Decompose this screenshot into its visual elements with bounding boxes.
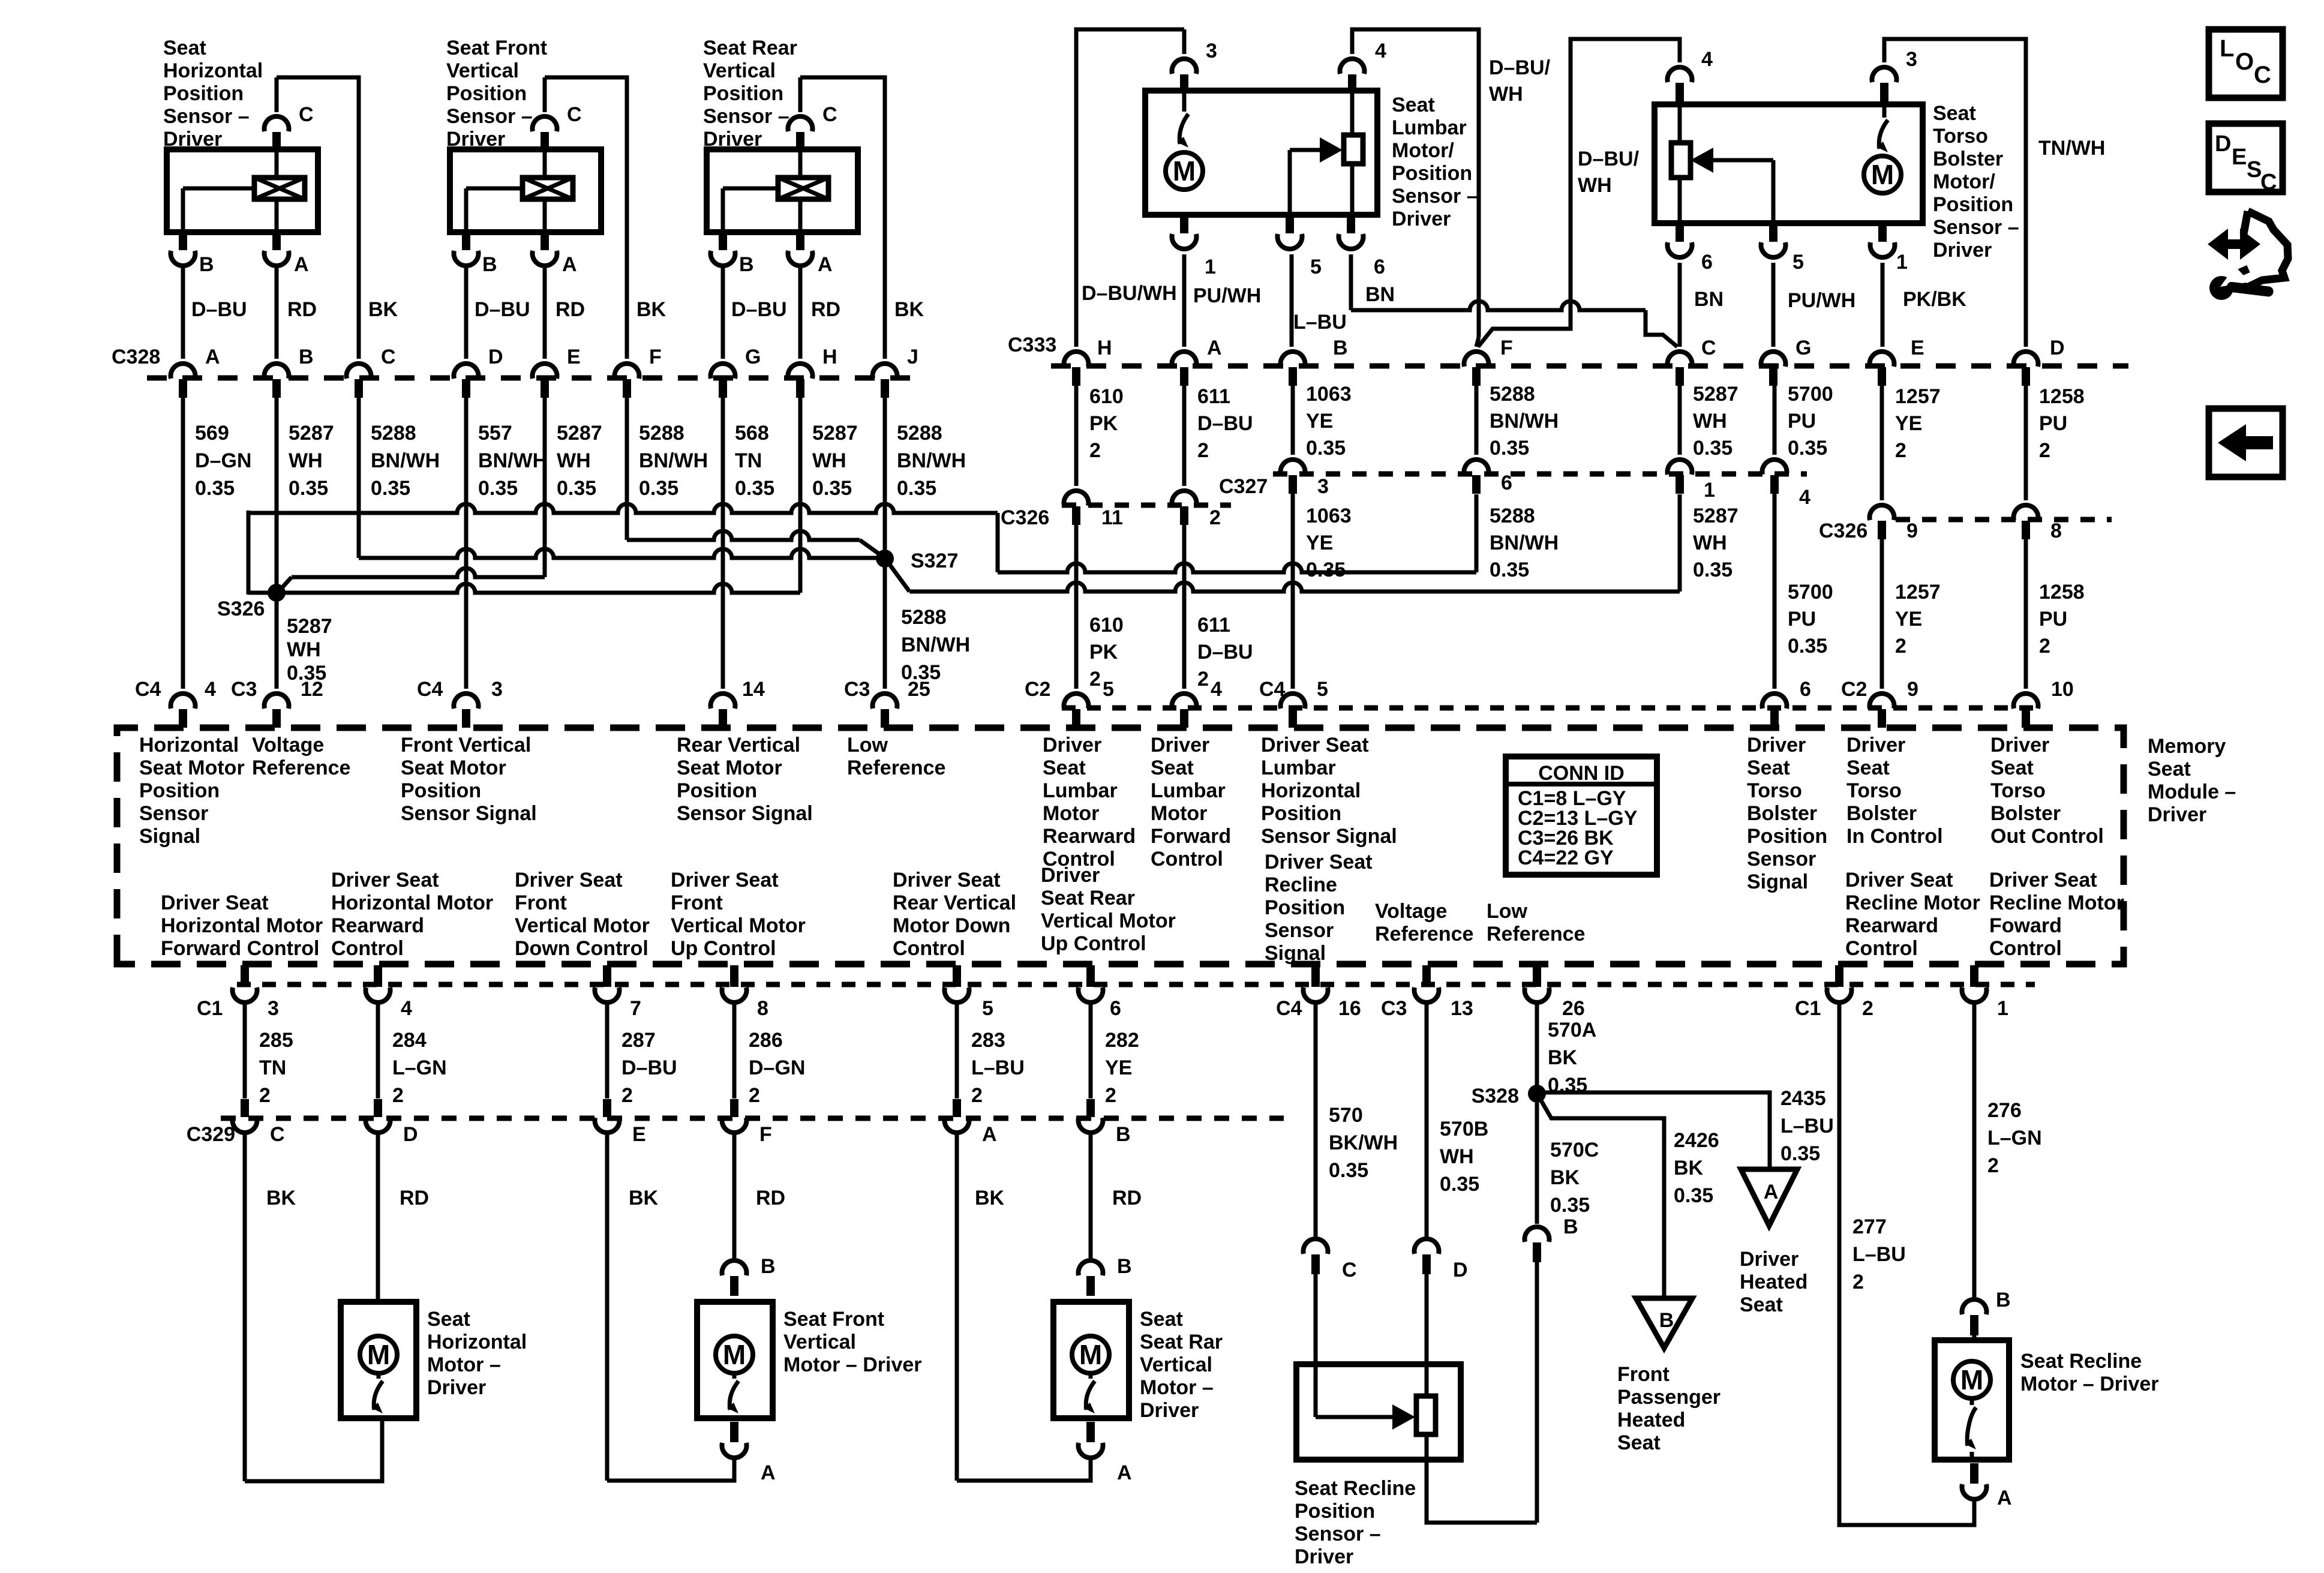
lumbar pin 4 loop wire D-BU/WH to C333-F xyxy=(1352,29,1479,337)
svg-text:Driver Seat: Driver Seat xyxy=(331,869,439,891)
wire column D 557 to module C4-3 xyxy=(464,397,469,689)
icon DESC box xyxy=(2209,124,2283,192)
svg-text:5700: 5700 xyxy=(1788,581,1833,604)
svg-text:285: 285 xyxy=(259,1029,293,1052)
svg-text:YE: YE xyxy=(1105,1056,1132,1079)
svg-text:Passenger: Passenger xyxy=(1617,1386,1721,1409)
svg-text:Seat: Seat xyxy=(1740,1293,1783,1316)
svg-text:RD: RD xyxy=(756,1187,785,1209)
svg-text:L–BU: L–BU xyxy=(1852,1243,1906,1266)
module bottom connector pin 5 xyxy=(953,965,961,987)
svg-text:Driver Seat: Driver Seat xyxy=(515,869,623,891)
svg-text:16: 16 xyxy=(1338,997,1361,1020)
svg-text:WH: WH xyxy=(1578,174,1612,197)
svg-text:1: 1 xyxy=(1896,251,1908,274)
svg-text:D: D xyxy=(1453,1259,1468,1281)
svg-text:C: C xyxy=(299,103,314,126)
junction S326 xyxy=(268,584,286,602)
svg-text:RD: RD xyxy=(1112,1187,1142,1209)
torso pin 1 wire PK/BK to C333-E xyxy=(1881,263,1885,347)
svg-text:WH: WH xyxy=(1693,532,1727,554)
svg-text:Torso: Torso xyxy=(1747,779,1802,802)
connector C333 pin F xyxy=(1464,352,1489,367)
connector C327 pin 4 xyxy=(1762,460,1787,475)
connector C326 pin 9 xyxy=(1870,505,1894,520)
svg-text:WH: WH xyxy=(1489,83,1523,106)
sensor 3 pin C connector xyxy=(788,116,813,131)
svg-text:Seat: Seat xyxy=(163,37,206,59)
wire 5700 PU from C327-4 to module pin 6 xyxy=(1773,494,1777,689)
svg-text:L: L xyxy=(2220,35,2234,62)
svg-text:Seat: Seat xyxy=(1933,102,1976,125)
svg-text:5288: 5288 xyxy=(639,422,684,445)
svg-text:1063: 1063 xyxy=(1306,383,1352,406)
svg-text:Reference: Reference xyxy=(1375,923,1473,945)
svg-text:BK: BK xyxy=(629,1187,659,1209)
svg-text:Position: Position xyxy=(1295,1500,1375,1523)
connector C326 pin 11 xyxy=(1064,491,1089,506)
svg-text:1: 1 xyxy=(1997,997,2008,1020)
svg-text:Motor: Motor xyxy=(1151,802,1207,825)
connector C327 pin 6 xyxy=(1464,460,1489,475)
svg-text:Sensor –: Sensor – xyxy=(1392,185,1478,208)
svg-text:YE: YE xyxy=(1306,410,1333,433)
position sensor 1 box xyxy=(167,149,318,232)
svg-text:5288: 5288 xyxy=(1490,383,1535,406)
torso pin 1 connector xyxy=(1878,223,1887,242)
svg-text:A: A xyxy=(818,253,833,276)
svg-text:Seat: Seat xyxy=(1043,757,1086,779)
svg-text:C333: C333 xyxy=(1008,334,1056,356)
svg-text:Sensor Signal: Sensor Signal xyxy=(1261,825,1397,848)
lumbar motor M xyxy=(1166,152,1203,190)
connector C326 pin 8 xyxy=(2014,505,2038,520)
svg-text:Reference: Reference xyxy=(252,757,350,779)
seat torso bolster motor/position sensor box xyxy=(1655,104,1923,223)
svg-text:0.35: 0.35 xyxy=(1693,437,1733,460)
svg-text:BK: BK xyxy=(894,298,924,321)
svg-text:6: 6 xyxy=(1800,678,1811,701)
module bottom connector pin 1 xyxy=(1970,965,1978,987)
sensor 1 pin C connector xyxy=(265,116,289,131)
svg-text:570: 570 xyxy=(1329,1104,1363,1127)
svg-text:Rear Vertical: Rear Vertical xyxy=(893,891,1016,914)
svg-text:Driver Seat: Driver Seat xyxy=(161,891,269,914)
svg-text:E: E xyxy=(2232,145,2247,170)
svg-text:4: 4 xyxy=(1211,678,1222,701)
sensor 1 pin C loop wire to C328 xyxy=(275,77,279,112)
svg-text:Lumbar: Lumbar xyxy=(1261,757,1336,779)
svg-text:O: O xyxy=(2235,49,2254,75)
svg-text:C3: C3 xyxy=(844,678,870,701)
svg-text:BK: BK xyxy=(1674,1157,1704,1179)
svg-text:C4: C4 xyxy=(1259,678,1286,701)
svg-text:2: 2 xyxy=(1895,439,1906,462)
svg-text:9: 9 xyxy=(1906,520,1918,542)
svg-text:Lumbar: Lumbar xyxy=(1392,116,1467,139)
module top connector dotted row xyxy=(1062,706,2035,711)
svg-text:A: A xyxy=(1207,337,1222,359)
svg-text:Motor/: Motor/ xyxy=(1392,139,1454,162)
svg-text:0.35: 0.35 xyxy=(1780,1142,1820,1165)
svg-text:BN: BN xyxy=(1694,288,1724,311)
sensor 3 pin A connector xyxy=(796,232,804,250)
svg-text:L–BU: L–BU xyxy=(971,1056,1025,1079)
svg-text:Seat Rear: Seat Rear xyxy=(703,37,797,59)
connector C328 pin G xyxy=(711,364,735,379)
svg-text:610: 610 xyxy=(1089,385,1124,408)
triangle A driver heated seat xyxy=(1741,1169,1797,1226)
svg-text:Position: Position xyxy=(139,779,220,802)
seat rear vertical motor box xyxy=(1053,1302,1129,1418)
wire 611 D-BU from C326-2 to module C2-4 xyxy=(1182,525,1187,689)
sensor 2 wires down to C328 xyxy=(464,268,469,359)
svg-text:Torso: Torso xyxy=(1846,779,1902,802)
connector C328 pin A xyxy=(171,364,196,379)
svg-text:Seat: Seat xyxy=(427,1308,470,1331)
CONN ID table xyxy=(1506,757,1657,875)
icon back arrow box xyxy=(2209,409,2283,477)
connector C326 (left) dashed row xyxy=(1062,503,1231,508)
seat rear vertical motor bottom rail to BK wire xyxy=(957,1460,1091,1481)
svg-text:Heated: Heated xyxy=(1740,1271,1807,1293)
svg-text:J: J xyxy=(907,346,918,368)
sensor 1 pin B connector xyxy=(179,232,187,250)
svg-text:Position: Position xyxy=(163,82,244,105)
svg-text:8: 8 xyxy=(757,997,768,1020)
svg-text:Voltage: Voltage xyxy=(1375,900,1447,923)
svg-text:Driver Seat: Driver Seat xyxy=(671,869,779,891)
svg-text:L–BU: L–BU xyxy=(1780,1115,1834,1137)
svg-text:2: 2 xyxy=(1197,439,1209,462)
seat front vertical motor wire RD from C329 xyxy=(732,1134,737,1258)
svg-text:Sensor –: Sensor – xyxy=(446,105,533,128)
svg-text:BN/WH: BN/WH xyxy=(1490,410,1559,433)
sensor 1 pin A internal wire xyxy=(275,199,279,232)
svg-text:Seat Rear: Seat Rear xyxy=(1041,887,1135,909)
svg-text:WH: WH xyxy=(1440,1145,1474,1168)
torso pin 5 connector xyxy=(1769,223,1777,242)
recline sensor connector D xyxy=(1415,1239,1439,1254)
svg-text:Sensor –: Sensor – xyxy=(703,105,789,128)
svg-text:BK: BK xyxy=(368,298,398,321)
svg-text:4: 4 xyxy=(401,997,412,1020)
recline motor connector B xyxy=(1962,1299,1986,1314)
torso motor switch xyxy=(1882,104,1887,118)
svg-text:E: E xyxy=(1911,337,1924,359)
svg-text:S326: S326 xyxy=(217,598,265,620)
wire BK C329-C to motor 1 bottom rail xyxy=(243,1134,247,1481)
svg-text:Position: Position xyxy=(1392,162,1472,185)
lumbar pin 3 loop wire D-BU/WH to C333-H xyxy=(1182,29,1187,54)
svg-text:Sensor –: Sensor – xyxy=(1933,216,2019,239)
bus wire 5288 from C328-C to S327 xyxy=(357,397,361,558)
svg-text:Sensor: Sensor xyxy=(1265,919,1334,942)
svg-text:5287: 5287 xyxy=(812,422,858,445)
svg-text:Driver: Driver xyxy=(163,128,222,151)
svg-text:C327: C327 xyxy=(1219,475,1268,498)
position sensor 3 box xyxy=(707,149,858,232)
svg-text:A: A xyxy=(294,253,309,276)
svg-text:C: C xyxy=(381,346,396,368)
svg-text:C: C xyxy=(1342,1259,1357,1281)
svg-text:2: 2 xyxy=(2039,635,2050,658)
svg-text:2: 2 xyxy=(2039,439,2050,462)
svg-text:2: 2 xyxy=(1089,439,1101,462)
wire 570B WH from C3-13 to recline sensor D xyxy=(1425,1004,1429,1236)
seat front vertical motor M xyxy=(716,1336,753,1373)
svg-text:Driver: Driver xyxy=(1846,734,1905,757)
svg-text:Horizontal: Horizontal xyxy=(427,1331,527,1353)
svg-text:D–BU: D–BU xyxy=(621,1056,677,1079)
svg-text:Position: Position xyxy=(401,779,481,802)
svg-text:Position: Position xyxy=(446,82,527,105)
sensor 1 potentiometer xyxy=(254,178,305,199)
svg-text:Control: Control xyxy=(331,937,404,960)
connector C329 pin F xyxy=(730,1099,738,1117)
svg-text:287: 287 xyxy=(621,1029,656,1052)
connector C327 dashed row xyxy=(1273,472,1807,477)
svg-text:BK: BK xyxy=(975,1187,1005,1209)
connector C327 pin 1 xyxy=(1668,460,1692,475)
connector C328 dashed row xyxy=(147,376,913,381)
recline motor connector A xyxy=(1970,1463,1978,1484)
svg-text:C: C xyxy=(2260,170,2277,195)
svg-text:0.35: 0.35 xyxy=(639,477,678,500)
svg-text:Front: Front xyxy=(671,891,723,914)
svg-text:Driver: Driver xyxy=(1990,734,2049,757)
svg-text:C326: C326 xyxy=(1819,520,1867,542)
svg-text:1257: 1257 xyxy=(1895,385,1941,408)
svg-text:Rearward: Rearward xyxy=(331,914,424,937)
svg-text:2: 2 xyxy=(749,1084,760,1107)
svg-text:5288: 5288 xyxy=(901,606,947,629)
svg-text:Motor – Driver: Motor – Driver xyxy=(783,1353,922,1376)
svg-text:1063: 1063 xyxy=(1306,505,1352,527)
svg-text:13: 13 xyxy=(1451,997,1473,1020)
torso pin 3 connector xyxy=(1872,67,1897,82)
svg-text:B: B xyxy=(199,253,214,276)
svg-text:RD: RD xyxy=(556,298,585,321)
wire 1258 PU from C333-D to C326-8 xyxy=(2024,385,2028,500)
svg-text:L–BU: L–BU xyxy=(1293,311,1347,334)
svg-text:Driver: Driver xyxy=(1747,734,1806,757)
torso position sensor potentiometer xyxy=(1678,104,1682,143)
svg-text:Vertical: Vertical xyxy=(703,59,776,82)
svg-text:2: 2 xyxy=(1209,506,1221,529)
svg-text:D–BU: D–BU xyxy=(191,298,247,321)
svg-text:2: 2 xyxy=(621,1084,633,1107)
connector C333 pin E xyxy=(1870,352,1894,367)
connector C333 pin C xyxy=(1668,352,1692,367)
svg-text:0.35: 0.35 xyxy=(1674,1184,1713,1207)
svg-text:C1: C1 xyxy=(197,997,223,1020)
svg-text:Seat Motor: Seat Motor xyxy=(677,757,782,779)
svg-text:WH: WH xyxy=(287,638,321,661)
svg-text:M: M xyxy=(1960,1364,1983,1395)
svg-text:Seat Motor: Seat Motor xyxy=(139,757,245,779)
svg-text:Forward Control: Forward Control xyxy=(161,937,319,960)
svg-text:5: 5 xyxy=(982,997,993,1020)
svg-text:F: F xyxy=(649,346,662,368)
lumbar pin 5 wire L-BU to C333-B xyxy=(1290,254,1294,347)
lumbar pin 6 connector xyxy=(1347,215,1355,233)
icon LOC box xyxy=(2209,29,2283,98)
svg-text:Driver: Driver xyxy=(1151,734,1209,757)
svg-text:WH: WH xyxy=(812,449,846,472)
svg-text:BN: BN xyxy=(1365,283,1395,306)
svg-text:A: A xyxy=(1117,1461,1132,1484)
svg-text:H: H xyxy=(1097,337,1112,359)
module top connector pin C2-9 xyxy=(1870,694,1894,709)
svg-text:WH: WH xyxy=(289,449,323,472)
svg-text:C328: C328 xyxy=(112,346,160,368)
svg-text:Seat Front: Seat Front xyxy=(783,1308,884,1331)
svg-text:Seat: Seat xyxy=(2148,758,2191,781)
svg-text:Rearward: Rearward xyxy=(1043,825,1136,848)
sensor 1 pin A connector xyxy=(272,232,281,250)
svg-text:Down Control: Down Control xyxy=(515,937,648,960)
svg-text:C4: C4 xyxy=(417,678,443,701)
sensor 2 pin C loop wire to C328 xyxy=(543,77,547,112)
sensor 3 pin A internal wire xyxy=(798,199,803,232)
svg-text:BN/WH: BN/WH xyxy=(1490,532,1559,554)
svg-text:9: 9 xyxy=(1907,678,1918,701)
svg-text:Position: Position xyxy=(1747,825,1827,848)
recline motor switch xyxy=(1970,1398,1974,1405)
svg-text:2: 2 xyxy=(1987,1154,1999,1177)
svg-text:611: 611 xyxy=(1197,614,1230,637)
svg-text:611: 611 xyxy=(1197,385,1230,408)
lumbar pin 6 wire BN to C333-C xyxy=(1349,254,1353,310)
svg-text:Control: Control xyxy=(1845,937,1918,960)
svg-text:Driver: Driver xyxy=(1140,1399,1199,1422)
svg-text:C4=22 GY: C4=22 GY xyxy=(1518,846,1614,869)
svg-text:286: 286 xyxy=(749,1029,783,1052)
module bottom connector pin 4 xyxy=(374,965,382,987)
svg-text:S327: S327 xyxy=(911,550,958,572)
svg-text:D–GN: D–GN xyxy=(195,449,251,472)
wire 5288 BN/WH from C333-F to C327-6 xyxy=(1475,385,1479,455)
svg-text:Low: Low xyxy=(1487,900,1528,923)
connector C333 pin H xyxy=(1064,352,1089,367)
seat rear vertical motor BK return wire xyxy=(955,1134,959,1481)
recline sensor wiper arrow xyxy=(1314,1364,1318,1417)
svg-text:Seat: Seat xyxy=(1846,757,1890,779)
svg-text:Horizontal Motor: Horizontal Motor xyxy=(331,891,493,914)
svg-text:2: 2 xyxy=(259,1084,271,1107)
wire 287 D-BU from C1-7 to C329-E xyxy=(605,1004,609,1098)
svg-text:5: 5 xyxy=(1103,678,1114,701)
svg-text:610: 610 xyxy=(1089,614,1124,637)
module bottom connector dotted row xyxy=(237,982,2035,987)
seat rear vertical motor M xyxy=(1072,1336,1109,1373)
wire 570C BK from S328 to recline sensor B xyxy=(1535,1103,1539,1224)
svg-text:Seat: Seat xyxy=(1747,757,1790,779)
svg-text:WH: WH xyxy=(1693,410,1727,433)
svg-text:5700: 5700 xyxy=(1788,383,1833,406)
svg-text:3: 3 xyxy=(1206,40,1217,62)
module bottom connector pin C1-3 xyxy=(241,965,249,987)
svg-text:C: C xyxy=(822,103,837,126)
svg-text:C326: C326 xyxy=(1001,506,1049,529)
wire 276 L-GN from C1-1 to recline motor B xyxy=(1972,1004,1977,1297)
svg-text:2: 2 xyxy=(1197,668,1209,691)
svg-text:570B: 570B xyxy=(1440,1118,1488,1140)
svg-text:PU: PU xyxy=(1788,608,1816,631)
sensor 3 pin C loop wire to C328 xyxy=(798,77,803,112)
seat front vertical motor connector B xyxy=(722,1260,747,1275)
svg-text:D–GN: D–GN xyxy=(749,1056,805,1079)
svg-text:Position: Position xyxy=(1265,896,1345,919)
svg-text:BK: BK xyxy=(266,1187,296,1209)
svg-text:2: 2 xyxy=(392,1084,404,1107)
svg-text:L–GN: L–GN xyxy=(1987,1127,2042,1149)
svg-text:Out Control: Out Control xyxy=(1990,825,2104,848)
svg-text:E: E xyxy=(567,346,581,368)
svg-text:5288: 5288 xyxy=(371,422,416,445)
svg-text:B: B xyxy=(299,346,314,368)
svg-text:2: 2 xyxy=(1105,1084,1116,1107)
svg-text:B: B xyxy=(739,253,754,276)
wire column J 5288 through S327 to module C3-25 xyxy=(883,397,887,689)
svg-text:Front Vertical: Front Vertical xyxy=(401,734,531,757)
connector C333 pin G xyxy=(1761,352,1786,367)
svg-text:Driver: Driver xyxy=(1041,864,1100,887)
module bottom connector pin C3-13 xyxy=(1422,965,1431,987)
svg-text:Driver: Driver xyxy=(446,128,505,151)
svg-text:5: 5 xyxy=(1310,256,1322,278)
svg-text:Recline Motor: Recline Motor xyxy=(1845,891,1980,914)
connector C329 pin C xyxy=(241,1099,249,1117)
svg-text:B: B xyxy=(1333,337,1348,359)
svg-text:M: M xyxy=(1173,155,1196,187)
svg-text:B: B xyxy=(1659,1309,1674,1332)
svg-text:Sensor –: Sensor – xyxy=(163,105,250,128)
module bottom connector pin 7 xyxy=(603,965,611,987)
lumbar position sensor potentiometer xyxy=(1350,91,1355,135)
svg-text:276: 276 xyxy=(1987,1099,2022,1122)
svg-text:0.35: 0.35 xyxy=(1329,1159,1368,1182)
svg-text:6: 6 xyxy=(1110,997,1121,1020)
svg-text:3: 3 xyxy=(491,678,503,701)
wire 5287 WH from C333-C to C327-1 xyxy=(1678,385,1682,455)
svg-text:0.35: 0.35 xyxy=(1788,437,1827,460)
svg-text:Sensor Signal: Sensor Signal xyxy=(401,802,537,825)
bus wire 5287 WH upper loop to C327-6 xyxy=(248,504,998,513)
svg-text:Bolster: Bolster xyxy=(1846,802,1917,825)
svg-text:Voltage: Voltage xyxy=(252,734,324,757)
seat rear vertical motor wire RD from C329 xyxy=(1089,1134,1093,1258)
svg-text:In Control: In Control xyxy=(1846,825,1943,848)
svg-text:A: A xyxy=(761,1461,776,1484)
wire 1258 PU from C326-8 to module pin 10 xyxy=(2024,539,2028,689)
svg-text:YE: YE xyxy=(1306,532,1333,554)
wire column A 569 to module C4-4 xyxy=(181,397,185,689)
svg-text:1257: 1257 xyxy=(1895,581,1941,604)
svg-text:Sensor –: Sensor – xyxy=(1295,1523,1381,1545)
svg-text:BN/WH: BN/WH xyxy=(371,449,440,472)
svg-text:BK: BK xyxy=(1548,1046,1578,1069)
svg-text:25: 25 xyxy=(908,678,930,701)
svg-text:TN: TN xyxy=(735,449,762,472)
svg-text:Horizontal: Horizontal xyxy=(1261,779,1361,802)
svg-text:BN/WH: BN/WH xyxy=(901,634,970,656)
module top connector pin C2-5 xyxy=(1064,694,1089,709)
svg-text:A: A xyxy=(1997,1487,2012,1509)
icon wrench xyxy=(2209,276,2233,300)
svg-text:6: 6 xyxy=(1701,251,1713,274)
